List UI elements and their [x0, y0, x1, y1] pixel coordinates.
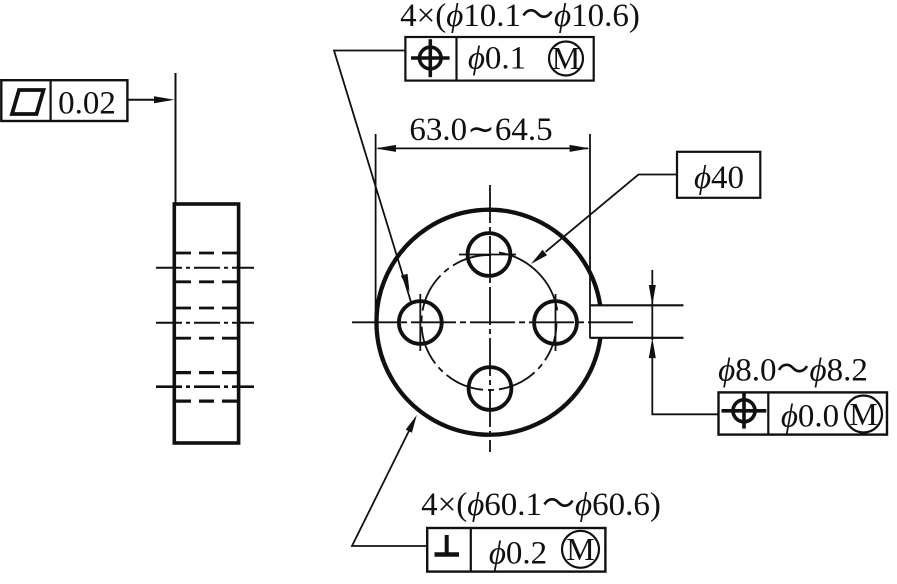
- leader from top frame to left hole: [334, 51, 411, 304]
- side view rectangle: [174, 204, 238, 443]
- hidden line (hole 1 bottom): [176, 280, 237, 283]
- center line hole 2: [156, 322, 254, 324]
- leader arrow from flatness frame to surface: [128, 96, 175, 103]
- slot dimension arrow upper: [649, 270, 656, 340]
- feature control frame: flatness 0.02 (left): [1, 80, 127, 121]
- svg-text:0.02: 0.02: [58, 86, 116, 122]
- modifier M circle (bottom frame): [562, 531, 599, 568]
- modifier M circle (right frame): [845, 396, 882, 433]
- center mark top hole: [459, 254, 516, 256]
- svg-text:ϕ0.2: ϕ0.2: [489, 536, 547, 572]
- extension line above side view: [175, 73, 177, 204]
- bolt circle solid arc upper-right: [499, 253, 557, 311]
- vertical center line of front view: [489, 185, 491, 452]
- dimension arrowhead left: [376, 145, 396, 152]
- hole left: [399, 301, 442, 344]
- feature control frame: position dia0.1 M (top): [405, 37, 593, 81]
- extension line right: [589, 134, 591, 339]
- center line hole 3: [156, 385, 254, 388]
- center mark right hole: [555, 294, 557, 351]
- svg-text:ϕ0.1: ϕ0.1: [468, 41, 526, 77]
- center mark left hole: [419, 294, 421, 351]
- svg-text:ϕ8.0～ϕ8.2: ϕ8.0～ϕ8.2: [718, 353, 868, 389]
- dimension line 63.0~64.5: [378, 147, 588, 149]
- dia40 label box: [677, 152, 760, 198]
- hole bottom: [469, 367, 512, 410]
- position symbol (right frame): [722, 393, 767, 429]
- position symbol (top frame): [411, 39, 450, 77]
- svg-text:M: M: [566, 531, 594, 567]
- hidden line (hole 2 top): [176, 307, 237, 310]
- hidden line (hole 3 top): [176, 371, 237, 374]
- svg-text:ϕ40: ϕ40: [694, 160, 744, 196]
- slot top line: [590, 304, 684, 306]
- leader from dia40 box to bolt circle: [531, 175, 677, 265]
- hole top: [468, 233, 511, 276]
- leader from bottom frame to outer circle: [352, 415, 427, 546]
- svg-text:ϕ0.0: ϕ0.0: [781, 399, 839, 435]
- svg-text:M: M: [552, 40, 580, 76]
- hole right: [534, 301, 577, 344]
- slot bottom line: [590, 337, 684, 339]
- svg-text:63.0∼64.5: 63.0∼64.5: [409, 112, 552, 148]
- outer circle of flange (interrupted at slot): [376, 210, 600, 435]
- svg-text:4×(ϕ60.1～ϕ60.6): 4×(ϕ60.1～ϕ60.6): [421, 487, 661, 523]
- slot dimension arrow lower, leader to frame: [649, 338, 719, 415]
- flatness symbol (parallelogram): [12, 90, 44, 114]
- dimension arrowhead right: [570, 145, 590, 152]
- svg-text:4×(ϕ10.1～ϕ10.6): 4×(ϕ10.1～ϕ10.6): [400, 0, 640, 34]
- svg-text:M: M: [849, 396, 877, 432]
- feature control frame: perpendicularity dia0.2 M (bottom): [427, 528, 605, 572]
- hidden line (hole 2 bottom): [176, 337, 237, 340]
- hidden line (hole 3 bottom): [176, 400, 237, 403]
- horizontal center line of front view: [352, 321, 634, 323]
- bolt circle dia40 (dash-dot): [421, 255, 556, 390]
- feature control frame: position dia0.0 M (right): [719, 392, 888, 434]
- center line hole 1: [156, 267, 254, 269]
- perpendicularity symbol: [435, 535, 460, 555]
- hidden line (hole 1 top): [176, 252, 237, 255]
- modifier M circle (top frame): [549, 42, 583, 76]
- extension line left: [375, 134, 377, 327]
